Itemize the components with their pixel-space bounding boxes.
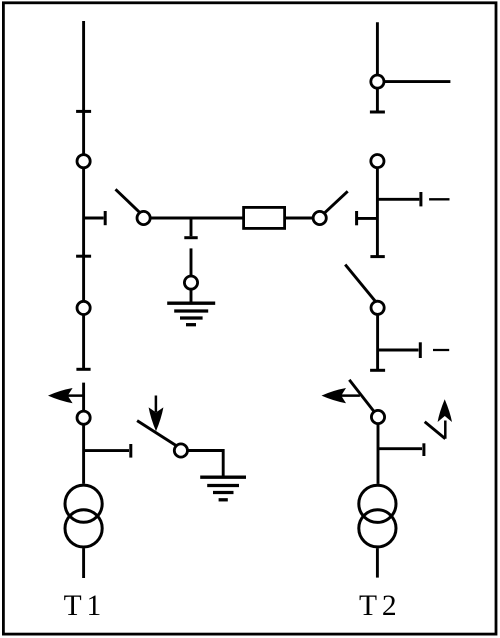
- switch blade SA2: [324, 191, 347, 213]
- earthing switch down arrowhead: [149, 407, 164, 431]
- contact bar tick branch 2: [419, 342, 422, 358]
- ground G2: [200, 477, 246, 500]
- breaker gap tick left: [76, 368, 90, 371]
- switch circle SA1: [137, 211, 150, 224]
- lightning arrow shaft: [444, 421, 447, 439]
- wire below T2: [376, 548, 379, 577]
- transformer T2 secondary winding: [359, 510, 396, 547]
- switch blade SA3: [345, 265, 376, 302]
- contact bar tick left branch: [104, 211, 107, 225]
- wire right bus below SA3: [376, 315, 379, 370]
- wire right bus top: [376, 22, 379, 112]
- contact bar tick T2 branch: [422, 443, 425, 456]
- wire below T1: [82, 548, 85, 578]
- ground G1: [167, 303, 215, 325]
- switch circle SA2: [313, 211, 326, 224]
- disconnector contact tick QS2: [76, 255, 91, 258]
- breaker blade QF2: [349, 380, 374, 412]
- arrowhead left breaker: [48, 388, 73, 403]
- earthing switch circle: [184, 276, 197, 289]
- svg-text:T 1: T 1: [64, 590, 102, 622]
- switch circle QF2: [371, 410, 384, 423]
- stub dash branch 2: [433, 349, 449, 351]
- disconnector contact tick QS1: [76, 110, 91, 113]
- switch circle S1: [77, 155, 90, 168]
- arrow tail left breaker: [60, 394, 84, 397]
- wire left bus lower: [82, 383, 85, 484]
- contact tick above breaker right: [370, 369, 385, 372]
- earthing switch circle: [174, 444, 187, 457]
- wire branch to test point left: [84, 217, 104, 220]
- wire to ground G1: [190, 290, 193, 302]
- switch circle SA3: [371, 301, 384, 314]
- contact tick bottom of S5 section: [370, 255, 384, 258]
- lightning arrow diagonal stroke: [425, 422, 446, 439]
- switch circle S3: [77, 411, 90, 424]
- wire branch right 1: [377, 198, 419, 201]
- contact bar tick branch 1: [419, 192, 422, 206]
- wire right bus middle: [376, 169, 379, 257]
- lightning arrowhead: [438, 399, 452, 422]
- transformer T1 secondary winding: [65, 510, 102, 547]
- transformer T2 primary winding: [359, 485, 396, 522]
- wire branch right 2: [378, 349, 419, 352]
- contact bar tick T1 branch: [129, 444, 132, 458]
- wire middle horizontal: [151, 217, 244, 220]
- switch circle S4: [371, 75, 384, 88]
- wire resistor to switch: [285, 217, 313, 220]
- wire right bus lower: [377, 425, 380, 484]
- wire left bus upper: [82, 21, 85, 369]
- contact bar tick right of SA2: [355, 211, 358, 225]
- resistor R1: [244, 207, 285, 228]
- contact tick below S4: [370, 111, 385, 114]
- wire branch T1 side: [84, 449, 129, 452]
- svg-text:T 2: T 2: [359, 590, 397, 622]
- stub dash branch 1: [429, 198, 449, 200]
- switch circle S2: [77, 301, 90, 314]
- switch blade SA1: [116, 189, 140, 212]
- wire branch T2 side: [378, 447, 422, 450]
- wire earthing switch stem: [190, 248, 193, 275]
- wire tick to right bus: [358, 217, 377, 220]
- earthing switch blade: [137, 421, 177, 446]
- earthing contact tick: [184, 236, 197, 239]
- switch circle S5: [371, 155, 384, 168]
- earthing switch down arrow tail: [155, 396, 158, 413]
- wire feeder right top: [385, 80, 450, 83]
- transformer T1 primary winding: [65, 485, 102, 522]
- wire earthing switch to ground G2: [188, 451, 223, 477]
- arrow tail right breaker: [334, 394, 360, 397]
- arrowhead right breaker: [322, 388, 347, 403]
- wire drop to earthing switch: [190, 218, 193, 236]
